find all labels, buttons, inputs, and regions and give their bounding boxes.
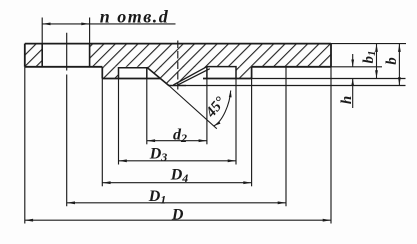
d2 extension left xyxy=(146,79,148,145)
D3 extension right xyxy=(235,79,237,165)
groove1 (left recess) xyxy=(119,68,147,79)
groove2 (right recess) xyxy=(207,67,236,79)
D extension left xyxy=(24,67,26,224)
boss bottom extension line right xyxy=(252,78,406,80)
D3 extension left xyxy=(118,79,120,165)
hatched boss right ring xyxy=(236,67,252,79)
dimension line d2 xyxy=(147,140,207,142)
svg-text:D: D xyxy=(171,206,184,223)
flange centerline xyxy=(177,41,179,90)
bolt hole centerline / D1 left extension xyxy=(66,33,68,207)
svg-text:n отв.d: n отв.d xyxy=(100,7,170,27)
plate bottom extension right xyxy=(331,66,382,68)
boss outline xyxy=(102,67,251,79)
hole dim extension left xyxy=(41,18,43,44)
hatched center tongue with chamfered walls xyxy=(147,66,208,85)
plate top extension right xyxy=(331,43,406,45)
b1 dimension line xyxy=(376,44,378,79)
hatched boss left ring xyxy=(102,67,118,79)
45 deg chamfer edge xyxy=(147,67,169,85)
cone right wall double line upper xyxy=(173,66,207,85)
D1 extension right xyxy=(285,67,287,207)
b dimension line xyxy=(398,44,400,86)
hole dim extension right xyxy=(89,18,91,44)
dimension line D3 xyxy=(119,160,237,162)
svg-text:h: h xyxy=(339,96,355,104)
D4 extension right xyxy=(251,79,253,187)
bolt hole walls xyxy=(42,44,89,67)
D4 extension left xyxy=(101,79,103,187)
svg-text:b: b xyxy=(384,57,400,65)
45 degree arc xyxy=(214,91,231,127)
dimension line n otv d with label underline xyxy=(42,23,175,25)
dimension line D4 xyxy=(102,182,251,184)
plate outline xyxy=(25,44,331,67)
recess bottom extension right xyxy=(186,85,406,87)
h dimension line xyxy=(352,54,354,108)
dimension line D xyxy=(25,219,331,221)
hatched plate left block xyxy=(25,44,42,67)
cone right wall double line lower xyxy=(177,69,210,86)
hatched plate right block xyxy=(90,44,331,67)
dimension line D1 xyxy=(67,202,286,204)
D extension right xyxy=(330,67,332,224)
chamfer extension ray for angle dim xyxy=(169,86,217,129)
d2 extension right xyxy=(206,79,208,145)
tongue / recess bottom line xyxy=(168,85,186,87)
